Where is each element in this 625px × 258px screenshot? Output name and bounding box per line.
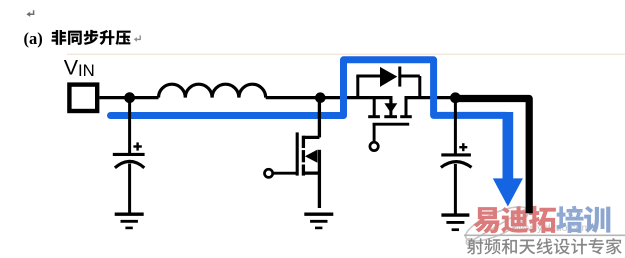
blue boost current path: [111, 60, 507, 116]
node C junction dot (output node): [450, 92, 461, 103]
ground (input cap): [115, 214, 144, 228]
wire: rectifier drain to node C: [406, 96, 455, 99]
svg-text:IN: IN: [78, 61, 95, 80]
node B junction dot (switch node): [315, 92, 326, 103]
caption text 非同步升压: [52, 30, 67, 45]
svg-text:V: V: [64, 55, 79, 79]
watermark swoosh decorations: [461, 200, 532, 248]
wire: VIN box to node A: [99, 96, 130, 99]
svg-text:(a): (a): [24, 29, 43, 48]
diode D1 (rectifier body diode): [356, 67, 420, 100]
watermark logo 易迪拓培训: [473, 207, 499, 233]
input source box VIN: [69, 85, 97, 111]
inductor L1: [159, 84, 266, 97]
NMOS Q1 gate terminal circle: [265, 169, 273, 177]
paragraph mark (top left): [30, 10, 34, 14]
NMOS Q1 low-side switch: [273, 98, 319, 208]
blue output current arrow: [493, 112, 523, 207]
ground (NMOS source): [304, 214, 333, 228]
faint table border line: [67, 53, 625, 55]
watermark underline: [464, 234, 625, 236]
ground (output cap): [441, 215, 469, 230]
watermark tagline 射频和天线设计专家: [467, 238, 483, 254]
output capacitor C2: [441, 98, 472, 214]
wire: inductor to node B: [266, 96, 321, 99]
wire: node B to rectifier source: [320, 96, 392, 99]
thick output wire (black): [455, 99, 529, 214]
PMOS Q2 gate terminal circle: [370, 142, 378, 150]
wire: node A to inductor: [130, 96, 159, 99]
paragraph mark (after caption): [137, 35, 141, 39]
PMOS Q2 high-side rectifier FET: [368, 96, 412, 142]
node A junction dot: [124, 92, 135, 103]
input capacitor C1: [113, 98, 145, 213]
